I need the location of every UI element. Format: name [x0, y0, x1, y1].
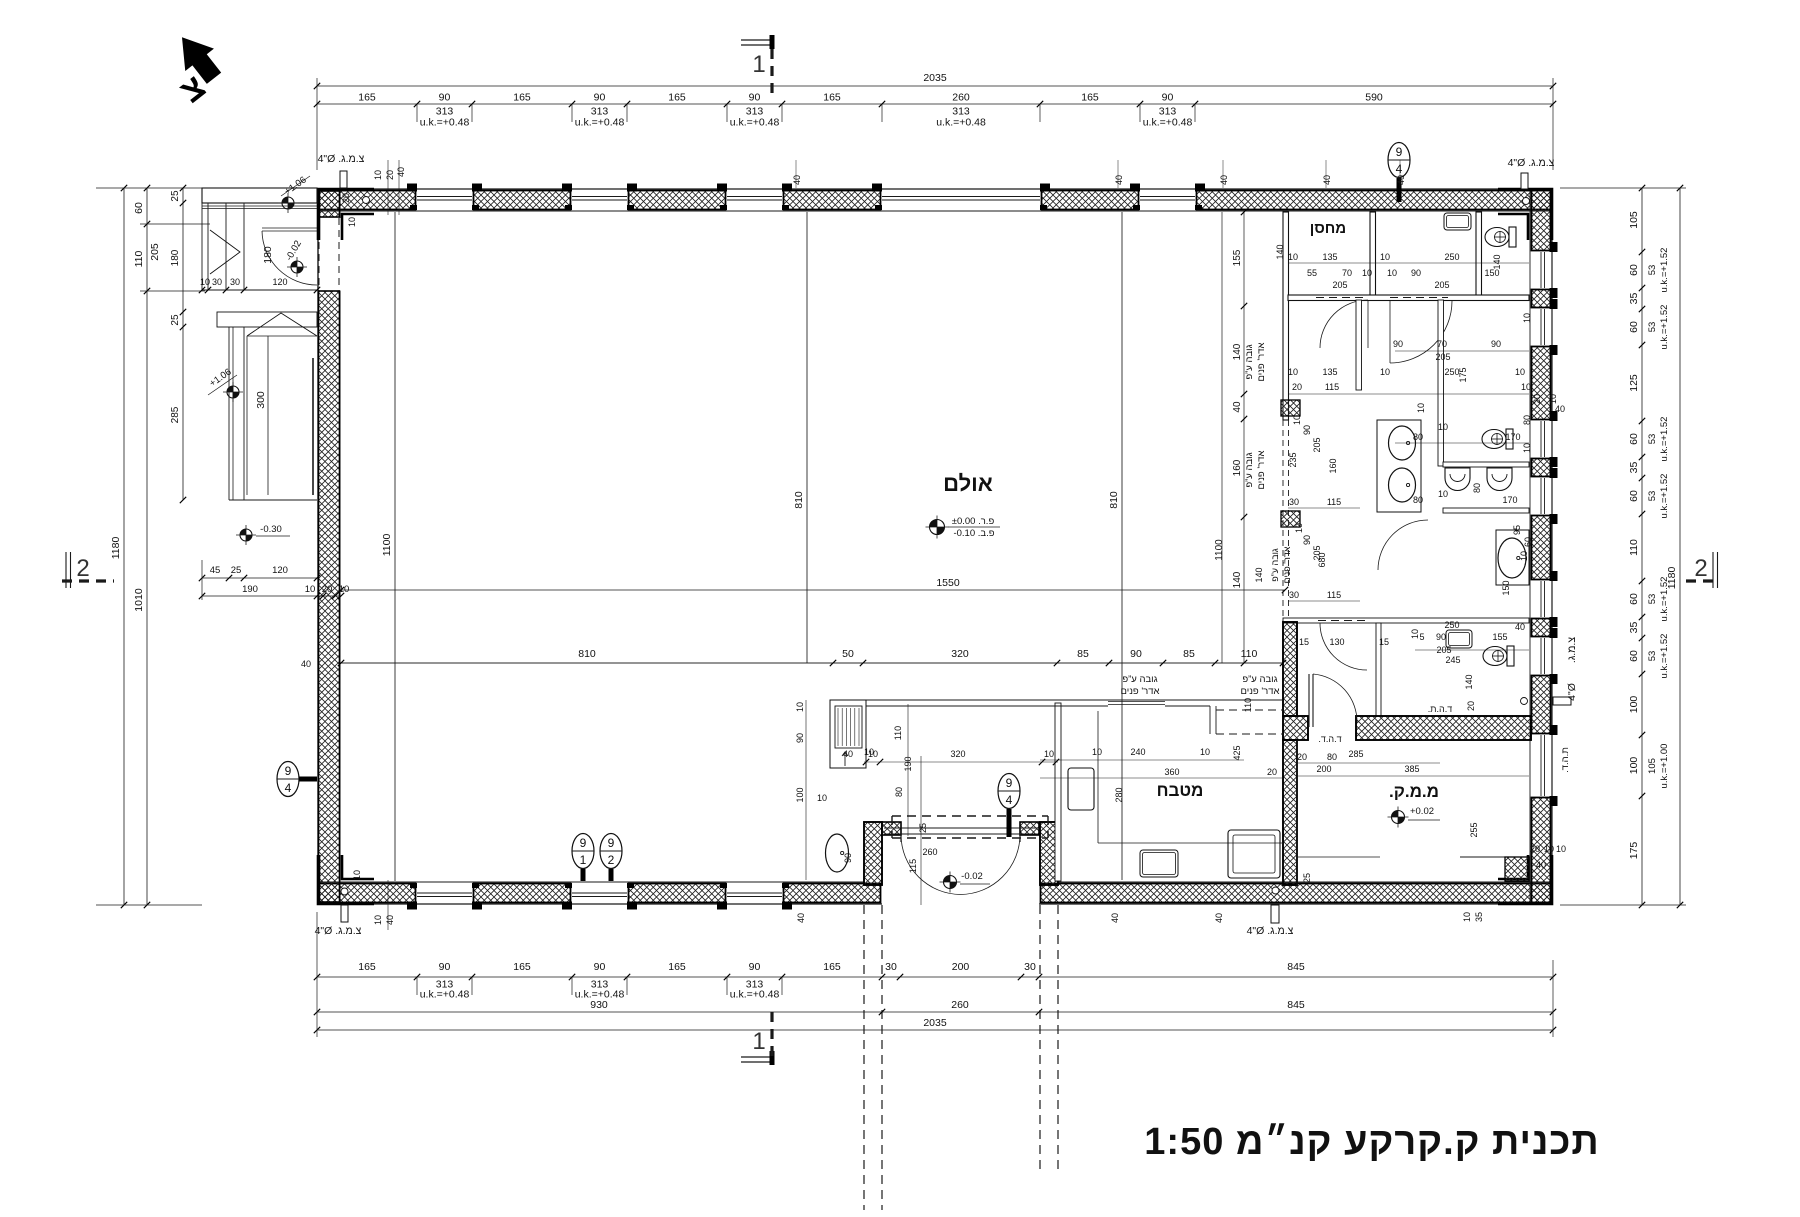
svg-text:90: 90: [1162, 92, 1174, 104]
svg-text:u.k.=+1.52: u.k.=+1.52: [1659, 634, 1670, 679]
svg-text:170: 170: [1505, 432, 1520, 442]
svg-text:40: 40: [1515, 622, 1525, 632]
svg-text:40: 40: [843, 749, 853, 759]
svg-text:40: 40: [796, 913, 806, 923]
ramp rails: [267, 336, 269, 495]
svg-text:10: 10: [1288, 252, 1298, 262]
svg-text:40: 40: [385, 915, 395, 925]
svg-text:10: 10: [1294, 523, 1304, 533]
window right W1 (glazing): [1544, 252, 1546, 288]
svg-text:גובה ע”פ: גובה ע”פ: [1244, 452, 1255, 487]
svg-text:140: 140: [1232, 571, 1243, 588]
urinals: [1445, 468, 1470, 490]
svg-text:.ת.ה.ד: .ת.ה.ד: [1560, 747, 1571, 773]
door opening left wall (dashed): [318, 218, 320, 291]
svg-text:35: 35: [1628, 622, 1640, 634]
mmk top wall west segment: [1283, 716, 1308, 740]
porch step: [217, 312, 317, 327]
svg-text:165: 165: [823, 92, 841, 104]
window top W4 (glazing): [882, 196, 1040, 198]
wall right pier 6 (hatched): [1532, 619, 1551, 637]
svg-text:.ד.ה.ת: .ד.ה.ת: [1428, 704, 1452, 714]
bottom dim tierB: [317, 1011, 1553, 1013]
svg-text:810: 810: [578, 648, 596, 660]
svg-text:165: 165: [513, 92, 531, 104]
svg-text:53: 53: [1647, 594, 1658, 605]
svg-text:90: 90: [1393, 339, 1403, 349]
wall right pier 1 (hatched): [1532, 190, 1551, 251]
svg-text:180: 180: [262, 246, 274, 264]
detail marker entrance: [998, 774, 1020, 809]
wall bottom pier 1 (hatched): [319, 884, 416, 903]
hall level marker: [930, 520, 945, 535]
kitchen wall step: [1209, 706, 1211, 734]
mmk door arc: [1313, 674, 1357, 723]
svg-text:260: 260: [922, 847, 937, 857]
mmk inner wall lines: [1296, 740, 1298, 885]
svg-text:125: 125: [1628, 374, 1640, 392]
svg-text:1550: 1550: [936, 577, 960, 589]
level -0.02 porch door: [291, 261, 303, 273]
svg-text:110: 110: [1243, 698, 1253, 712]
svg-text:205: 205: [1434, 280, 1449, 290]
svg-text:u.k.=+0.48: u.k.=+0.48: [730, 117, 780, 129]
svg-text:30: 30: [212, 277, 222, 287]
svg-text:90: 90: [749, 961, 761, 973]
svg-text:4"Ø .צ.מ.ג: 4"Ø .צ.מ.ג: [1508, 157, 1555, 169]
svg-text:15: 15: [1299, 637, 1309, 647]
svg-text:10: 10: [1200, 747, 1210, 757]
svg-text:425: 425: [1232, 745, 1242, 760]
mmk corner pier: [1505, 857, 1529, 881]
pipe stub bottom-right: [1271, 905, 1279, 923]
wall bottom: inner face line: [317, 881, 864, 883]
svg-text:10: 10: [817, 793, 827, 803]
svg-text:165: 165: [823, 961, 841, 973]
pipe stub right wall: [1553, 697, 1571, 705]
detail marker left wall: [277, 762, 299, 797]
svg-text:תכנית ק.קרקע קנ״מ 1:50: תכנית ק.קרקע קנ״מ 1:50: [1144, 1121, 1599, 1163]
sink top-right: [1444, 213, 1471, 230]
wall bottom pier 4 (hatched): [784, 884, 881, 903]
interior vertical dim chain x=1244: [1243, 212, 1245, 663]
svg-text:אדר' פנים: אדר' פנים: [1121, 686, 1160, 697]
svg-text:250: 250: [1444, 367, 1459, 377]
door arc at porch landing: [262, 227, 317, 229]
svg-text:235: 235: [1288, 452, 1298, 467]
wall x1438: [1438, 300, 1444, 466]
svg-text:u.k.=+0.48: u.k.=+0.48: [1143, 117, 1193, 129]
svg-text:אדר' פנים: אדר' פנים: [1241, 686, 1280, 697]
svg-text:53: 53: [1647, 434, 1658, 445]
svg-text:25: 25: [170, 314, 181, 326]
svg-text:10: 10: [347, 217, 357, 227]
svg-text:40: 40: [1536, 860, 1546, 870]
svg-text:90: 90: [1302, 535, 1312, 545]
svg-text:10: 10: [1416, 403, 1426, 413]
svg-text:115: 115: [1327, 590, 1341, 600]
svg-text:140: 140: [1275, 244, 1285, 259]
hall grid line x=1122: [1121, 212, 1123, 880]
svg-text:90: 90: [1130, 648, 1142, 660]
svg-text:10: 10: [1515, 367, 1525, 377]
svg-text:10: 10: [1410, 629, 1420, 639]
wall top pier 5 (hatched): [1042, 191, 1139, 210]
door arc room 1: [1320, 300, 1368, 348]
svg-text:110: 110: [1241, 648, 1258, 660]
svg-text:4: 4: [1396, 162, 1403, 176]
bottom-left dims: [202, 577, 317, 579]
svg-text:80: 80: [1472, 483, 1482, 493]
svg-text:25: 25: [918, 823, 928, 833]
svg-text:2: 2: [608, 853, 615, 867]
svg-text:280: 280: [1114, 787, 1124, 802]
svg-text:120: 120: [272, 565, 288, 576]
svg-text:135: 135: [1322, 367, 1337, 377]
svg-text:175: 175: [1628, 842, 1640, 860]
mmk lobby left wall (hatched thick): [1283, 622, 1297, 716]
svg-text:1: 1: [752, 1028, 765, 1055]
svg-text:115: 115: [1327, 497, 1341, 507]
svg-text:140: 140: [1464, 674, 1474, 689]
svg-text:60: 60: [1628, 433, 1640, 445]
svg-text:205: 205: [1435, 352, 1450, 362]
hall grid line x=395: [394, 212, 396, 881]
svg-text:53: 53: [1647, 651, 1658, 662]
svg-text:250: 250: [1444, 620, 1459, 630]
svg-text:105: 105: [1647, 758, 1658, 774]
svg-text:4"Ø .צ.מ.ג: 4"Ø .צ.מ.ג: [318, 153, 365, 165]
svg-text:90: 90: [843, 853, 853, 863]
svg-text:40: 40: [1232, 401, 1243, 413]
detail markers bottom pair: [572, 834, 594, 869]
entrance canopy (dashed): [892, 815, 1048, 817]
svg-text:105: 105: [1628, 211, 1640, 229]
svg-text:1: 1: [752, 51, 765, 78]
window right W5 (glazing): [1544, 581, 1546, 617]
svg-text:250: 250: [1444, 252, 1459, 262]
svg-text:30: 30: [1289, 590, 1299, 600]
porch outline: [202, 188, 317, 203]
svg-text:810: 810: [793, 491, 805, 509]
svg-text:90: 90: [1436, 632, 1446, 642]
svg-text:5: 5: [1419, 632, 1424, 642]
pipe stub top-left: [340, 171, 347, 188]
window bottom W1 (glazing): [417, 896, 472, 898]
window top W5 (glazing): [1140, 196, 1195, 198]
svg-text:40: 40: [301, 659, 311, 669]
svg-text:260: 260: [952, 92, 970, 104]
svg-text:200: 200: [1316, 764, 1331, 774]
svg-text:115: 115: [1325, 382, 1339, 392]
svg-text:10: 10: [1522, 313, 1532, 323]
svg-text:165: 165: [358, 961, 376, 973]
wall right pier 3 (hatched): [1532, 347, 1551, 420]
svg-text:30: 30: [885, 961, 897, 973]
svg-text:10: 10: [1044, 749, 1054, 759]
arrow symbol: [844, 752, 846, 766]
washbasin near entrance: [826, 834, 849, 872]
svg-text:70: 70: [1342, 268, 1352, 278]
dashed projection lines below entrance: [863, 905, 865, 1210]
window right W4 (glazing): [1544, 478, 1546, 514]
wall top pier 1 (hatched): [319, 191, 416, 210]
kitchen/hall south wall with pass-through: [866, 699, 1282, 701]
entrance recess stub right (hatched): [1020, 822, 1039, 835]
corridor wall: [1288, 295, 1529, 301]
wall bottom: outer face line: [317, 903, 882, 905]
svg-text:.ד.ה.ד: .ד.ה.ד: [1318, 734, 1341, 744]
kitchen sink: [1140, 850, 1178, 877]
svg-text:45: 45: [210, 565, 221, 576]
svg-text:90: 90: [594, 92, 606, 104]
svg-text:90: 90: [439, 92, 451, 104]
wall top pier 3 (hatched): [629, 191, 726, 210]
svg-text:205: 205: [1312, 437, 1322, 452]
svg-text:10: 10: [1387, 268, 1397, 278]
svg-text:205: 205: [1312, 545, 1322, 560]
top dim tier2: [317, 103, 1553, 105]
wall bottom pier 2 (hatched): [474, 884, 571, 903]
svg-text:40: 40: [1214, 913, 1224, 923]
detail marker top: [1388, 143, 1410, 178]
svg-text:20: 20: [1530, 844, 1540, 854]
svg-text:10: 10: [1288, 367, 1298, 377]
svg-text:140: 140: [1232, 343, 1243, 360]
svg-text:165: 165: [1081, 92, 1099, 104]
corner mark top-left: [319, 190, 375, 241]
svg-text:2035: 2035: [923, 72, 947, 84]
svg-text:80: 80: [1522, 415, 1532, 425]
pilaster hatched: [1281, 400, 1300, 416]
svg-text:10: 10: [1521, 382, 1531, 392]
wall right pier 4 (hatched): [1532, 459, 1551, 477]
svg-text:90: 90: [594, 961, 606, 973]
window bottom W2 (glazing): [572, 896, 627, 898]
wall top pier 4 (hatched): [784, 191, 881, 210]
door arc bath: [1320, 623, 1367, 670]
svg-text:.מ.מ.ק: .מ.מ.ק: [1389, 782, 1439, 801]
left chain stairs: [182, 188, 184, 500]
svg-text:205: 205: [1332, 280, 1347, 290]
wall right pier 8 (hatched): [1532, 798, 1551, 904]
svg-text:אדר' פנים: אדר' פנים: [1256, 450, 1267, 489]
stair direction chevrons: [210, 230, 240, 274]
svg-text:גובה ע”פ: גובה ע”פ: [1244, 344, 1255, 379]
room walls y513-622: [1283, 618, 1529, 623]
heater closet: [830, 700, 866, 768]
svg-text:95: 95: [1512, 525, 1522, 535]
mmk west wall (hatched): [1283, 740, 1297, 885]
svg-text:גובה ע”פ: גובה ע”פ: [1122, 674, 1157, 685]
svg-text:40: 40: [1110, 913, 1120, 923]
svg-text:2035: 2035: [923, 1017, 947, 1029]
wall top pier 2 (hatched): [474, 191, 571, 210]
entrance door arc left: [901, 835, 961, 895]
svg-text:10: 10: [1462, 912, 1472, 922]
corner mark top-right: [1498, 190, 1552, 241]
svg-text:130: 130: [1329, 637, 1344, 647]
svg-text:80: 80: [1413, 495, 1423, 505]
svg-text:אדר' פנים: אדר' פנים: [1282, 546, 1292, 583]
svg-text:53: 53: [1647, 322, 1658, 333]
svg-text:100: 100: [1628, 757, 1640, 775]
wall top pier 6 (hatched): [1197, 191, 1552, 210]
svg-text:1: 1: [580, 853, 587, 867]
svg-text:10: 10: [1548, 394, 1558, 404]
entrance double door leaves: [900, 834, 902, 842]
storage right wall: [1370, 212, 1376, 298]
svg-text:60: 60: [133, 202, 145, 214]
double-sink counter: [1377, 420, 1421, 512]
svg-text:100: 100: [1628, 696, 1640, 714]
wall right pier 2 (hatched): [1532, 290, 1551, 308]
svg-text:60: 60: [1628, 321, 1640, 333]
partition wall hall/right-block: [1283, 212, 1289, 420]
svg-text:90: 90: [439, 961, 451, 973]
svg-text:25: 25: [231, 565, 242, 576]
svg-text:285: 285: [1348, 749, 1363, 759]
hall dim row y=657: [341, 662, 1283, 664]
svg-text:90: 90: [795, 733, 805, 743]
svg-text:110: 110: [1628, 539, 1640, 556]
top dim tier1 2035: [317, 85, 1553, 87]
svg-text:205: 205: [149, 243, 161, 261]
svg-text:9: 9: [580, 836, 587, 850]
svg-text:20: 20: [1292, 382, 1302, 392]
wall left (hatched solid): [317, 188, 319, 905]
svg-text:40: 40: [1396, 175, 1406, 185]
right chain: [1641, 188, 1643, 905]
svg-text:385: 385: [1404, 764, 1419, 774]
svg-text:180: 180: [170, 249, 181, 266]
ramp gable triangle: [247, 313, 317, 336]
level -0.30: [240, 529, 252, 541]
svg-text:20: 20: [385, 170, 395, 180]
right dim 1180: [1679, 188, 1681, 905]
kitchen left wall: [1055, 703, 1061, 881]
svg-text:20: 20: [1267, 767, 1277, 777]
svg-text:85: 85: [1183, 648, 1195, 660]
left dim 1180: [123, 188, 125, 905]
stairs top dims: [202, 289, 317, 291]
svg-text:360: 360: [1164, 767, 1179, 777]
svg-text:155: 155: [1232, 249, 1243, 266]
svg-text:15: 15: [1379, 637, 1389, 647]
svg-text:1100: 1100: [1214, 539, 1225, 561]
svg-text:10: 10: [868, 749, 878, 759]
svg-text:9: 9: [608, 836, 615, 850]
svg-text:1010: 1010: [133, 588, 145, 612]
svg-text:155: 155: [1492, 632, 1507, 642]
svg-text:.צ.מ.ג: .צ.מ.ג: [1566, 637, 1578, 663]
svg-text:10: 10: [1292, 415, 1302, 425]
svg-text:10: 10: [373, 170, 383, 180]
svg-text:4"Ø .צ.מ.ג: 4"Ø .צ.מ.ג: [1247, 925, 1294, 937]
svg-text:80: 80: [1413, 432, 1423, 442]
svg-text:10: 10: [1362, 268, 1372, 278]
svg-text:20: 20: [1466, 701, 1476, 711]
svg-text:10: 10: [305, 584, 316, 595]
svg-text:u.k.=+1.52: u.k.=+1.52: [1659, 305, 1670, 350]
mmk level marker: [1392, 811, 1405, 824]
svg-text:10: 10: [200, 277, 210, 287]
pass-through window: [1108, 701, 1165, 703]
hall dim line 1550: [341, 589, 1285, 591]
svg-text:גובה ע”פ: גובה ע”פ: [1270, 548, 1280, 582]
svg-text:10: 10: [1092, 747, 1102, 757]
svg-text:80: 80: [894, 787, 904, 797]
svg-text:u.k.=+0.48: u.k.=+0.48: [730, 989, 780, 1001]
svg-text:20: 20: [322, 584, 333, 595]
window right W7 (glazing): [1544, 735, 1546, 796]
svg-text:אדר' פנים: אדר' פנים: [1256, 342, 1267, 381]
svg-text:u.k.=+0.48: u.k.=+0.48: [420, 989, 470, 1001]
level +1.06 top: [282, 197, 294, 209]
toilet top-right: [1485, 227, 1516, 247]
svg-text:50: 50: [842, 648, 854, 660]
window bottom W3 (glazing): [727, 896, 782, 898]
window right W3 (glazing): [1544, 421, 1546, 457]
svg-text:מחסן: מחסן: [1310, 220, 1346, 237]
svg-text:90: 90: [1411, 268, 1421, 278]
svg-text:845: 845: [1287, 999, 1305, 1011]
corridor door gaps (dashed lintels): [1316, 297, 1364, 299]
bottom dim tierC: [317, 1029, 1553, 1031]
ramp walls: [228, 327, 230, 500]
svg-text:135: 135: [1322, 252, 1337, 262]
partition dashed lower part: [1282, 420, 1284, 622]
wall right: piers and windows: [1551, 188, 1553, 905]
svg-text:35: 35: [1628, 462, 1640, 474]
svg-text:2: 2: [1694, 555, 1707, 582]
svg-text:25: 25: [1302, 873, 1312, 883]
svg-text:40: 40: [396, 167, 406, 177]
toilet mid-right: [1482, 429, 1513, 449]
wall bottom pier 5 (hatched): [1041, 884, 1552, 903]
svg-text:110: 110: [133, 250, 145, 267]
svg-text:10: 10: [795, 702, 805, 712]
mmk door leaf: [1308, 674, 1310, 727]
svg-text:u.k.=+0.48: u.k.=+0.48: [420, 117, 470, 129]
svg-text:-0.02: -0.02: [961, 871, 983, 882]
svg-text:300: 300: [255, 391, 267, 409]
svg-text:60: 60: [1523, 537, 1533, 547]
section marker 2 left: [65, 552, 67, 588]
section marker 2 right: [1712, 552, 1714, 588]
vanity right: [1496, 530, 1529, 585]
svg-text:165: 165: [358, 92, 376, 104]
bath wall x1376: [1376, 623, 1381, 716]
svg-text:260: 260: [951, 999, 969, 1011]
svg-text:4: 4: [285, 781, 292, 795]
svg-text:2: 2: [76, 555, 89, 582]
entrance recess right wall (hatched): [1040, 822, 1058, 885]
hall grid line x=800: [806, 212, 808, 663]
svg-text:30: 30: [230, 277, 240, 287]
svg-text:285: 285: [170, 406, 181, 423]
wall right pier 5 (hatched): [1532, 516, 1551, 580]
svg-text:9: 9: [285, 764, 292, 778]
svg-text:10: 10: [352, 870, 362, 880]
svg-text:±0.00 .פ.ר: ±0.00 .פ.ר: [952, 516, 995, 527]
svg-text:165: 165: [668, 961, 686, 973]
svg-text:810: 810: [1108, 491, 1120, 509]
svg-text:115: 115: [908, 859, 918, 873]
svg-text:40: 40: [1114, 175, 1124, 185]
pipe stub bottom-left: [341, 905, 348, 922]
left chain: [146, 188, 148, 905]
